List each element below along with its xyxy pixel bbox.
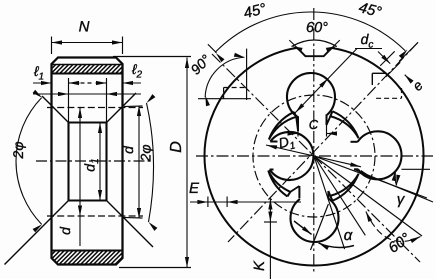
slot lines right hole [351, 142, 359, 170]
dim d inner line [78, 108, 82, 247]
e dim ticks [380, 51, 400, 77]
dim D1 arrow [266, 145, 361, 167]
svg-text:d: d [57, 226, 73, 235]
dim C [288, 125, 338, 137]
vertical centerline [313, 8, 315, 272]
land crescent NE [330, 111, 358, 138]
alpha radial line [314, 156, 345, 249]
dim 90 lines [198, 49, 251, 100]
leader arrow in bottom hole [294, 221, 312, 234]
diagonal centerline NW-SE [212, 54, 420, 262]
svg-text:C: C [309, 117, 319, 132]
gamma relief line [354, 169, 433, 202]
label 60 top [306, 20, 328, 36]
chip hole left [270, 132, 314, 180]
label l2 [131, 61, 143, 81]
dim 45 arc [215, 12, 407, 62]
recess rect upper-left [224, 88, 247, 99]
step line NW [296, 117, 298, 131]
label D [168, 141, 185, 153]
section centerline [36, 160, 152, 162]
label e [409, 77, 426, 94]
cone diagonal top-right [107, 93, 137, 123]
top hatch band borders [52, 65, 123, 74]
60lr line a [314, 156, 422, 236]
label alpha [344, 227, 353, 244]
dim 60 top arc [292, 40, 337, 52]
bottom band hatching [33, 251, 137, 265]
alpha face line [311, 204, 329, 250]
ext lines d outer [124, 106, 143, 218]
step line NE [327, 116, 331, 125]
label N [79, 19, 90, 36]
45 arc right tick [399, 42, 418, 61]
label 90 [187, 51, 214, 78]
cone diagonal bottom-right [107, 201, 154, 248]
svg-text:α: α [344, 227, 353, 244]
dim D line [113, 57, 191, 268]
adjusting slot notch [289, 40, 340, 56]
recess rect upper-right [372, 73, 401, 98]
dim l1 arrows [33, 81, 80, 85]
svg-text:K: K [251, 260, 268, 271]
dim bore width line [33, 92, 141, 96]
dim 2phi left arc [16, 90, 42, 233]
label dc [361, 31, 374, 51]
cone diagonal bottom-left [5, 201, 69, 265]
svg-text:N: N [79, 19, 90, 36]
label gamma [397, 191, 406, 208]
dim K [264, 199, 277, 279]
dim gamma arc [392, 170, 401, 185]
label 2phi right [138, 145, 154, 163]
label d outer [120, 145, 136, 154]
chip hole top [287, 73, 335, 117]
chip hole right [358, 131, 402, 179]
slot lines bottom hole [299, 186, 328, 199]
dim N line [52, 37, 123, 55]
step line SE [328, 191, 330, 196]
dim d1 line [98, 123, 102, 201]
label E [189, 180, 200, 197]
thread crest dashed line bottom [47, 215, 143, 217]
label C [309, 117, 319, 132]
top band hatching [38, 65, 133, 74]
label d1 [82, 158, 102, 171]
horizontal centerline [196, 155, 433, 157]
label 45 left [242, 0, 268, 22]
dim E [190, 197, 301, 208]
dim 90 arc [205, 53, 244, 106]
thread bore outline [69, 123, 107, 201]
gamma line a [402, 168, 431, 170]
svg-text:d: d [120, 145, 136, 154]
chip hole bottom [291, 199, 339, 242]
diagonal centerline NE-SW [228, 42, 418, 242]
dim l1-l2 dashed tail [81, 82, 95, 84]
label 45 right [357, 0, 383, 21]
svg-text:D: D [168, 141, 185, 153]
gamma line b [314, 156, 427, 198]
land crescent SE [330, 174, 358, 201]
bottom hatch band border [52, 250, 123, 252]
label K [251, 260, 268, 271]
dim 60lr arc [366, 212, 421, 244]
dim dc line [294, 49, 357, 115]
dim 2phi right arc [147, 94, 158, 231]
hole centers circle [253, 95, 375, 217]
label 2phi left [10, 142, 26, 160]
45 arc left tick [208, 44, 217, 53]
dim alpha arc [319, 243, 355, 250]
cone diagonal top-left [42, 96, 69, 123]
slot lines top hole [298, 114, 327, 131]
land crescent NW [269, 112, 296, 140]
60lr line b [314, 156, 365, 235]
dc shelf [355, 48, 382, 50]
label d inner [57, 226, 73, 235]
thread crest dashed line top [47, 107, 143, 109]
label D1 [277, 132, 297, 155]
svg-text:E: E [189, 180, 200, 197]
die outer circle [205, 48, 424, 266]
label 60 lower right [385, 230, 413, 257]
step line SW [290, 186, 299, 192]
land crescent SW [268, 171, 290, 197]
label l1 [33, 63, 44, 83]
die body outline (section view) [52, 58, 123, 265]
e dim arrows [378, 52, 414, 84]
slot lines left hole [270, 142, 278, 170]
dim d outer line [137, 106, 141, 219]
svg-text:2φ: 2φ [138, 145, 154, 163]
dim l2 arrows [96, 81, 142, 85]
svg-text:2φ: 2φ [10, 142, 26, 160]
bore extension lines [69, 78, 107, 123]
svg-text:60°: 60° [306, 20, 328, 36]
